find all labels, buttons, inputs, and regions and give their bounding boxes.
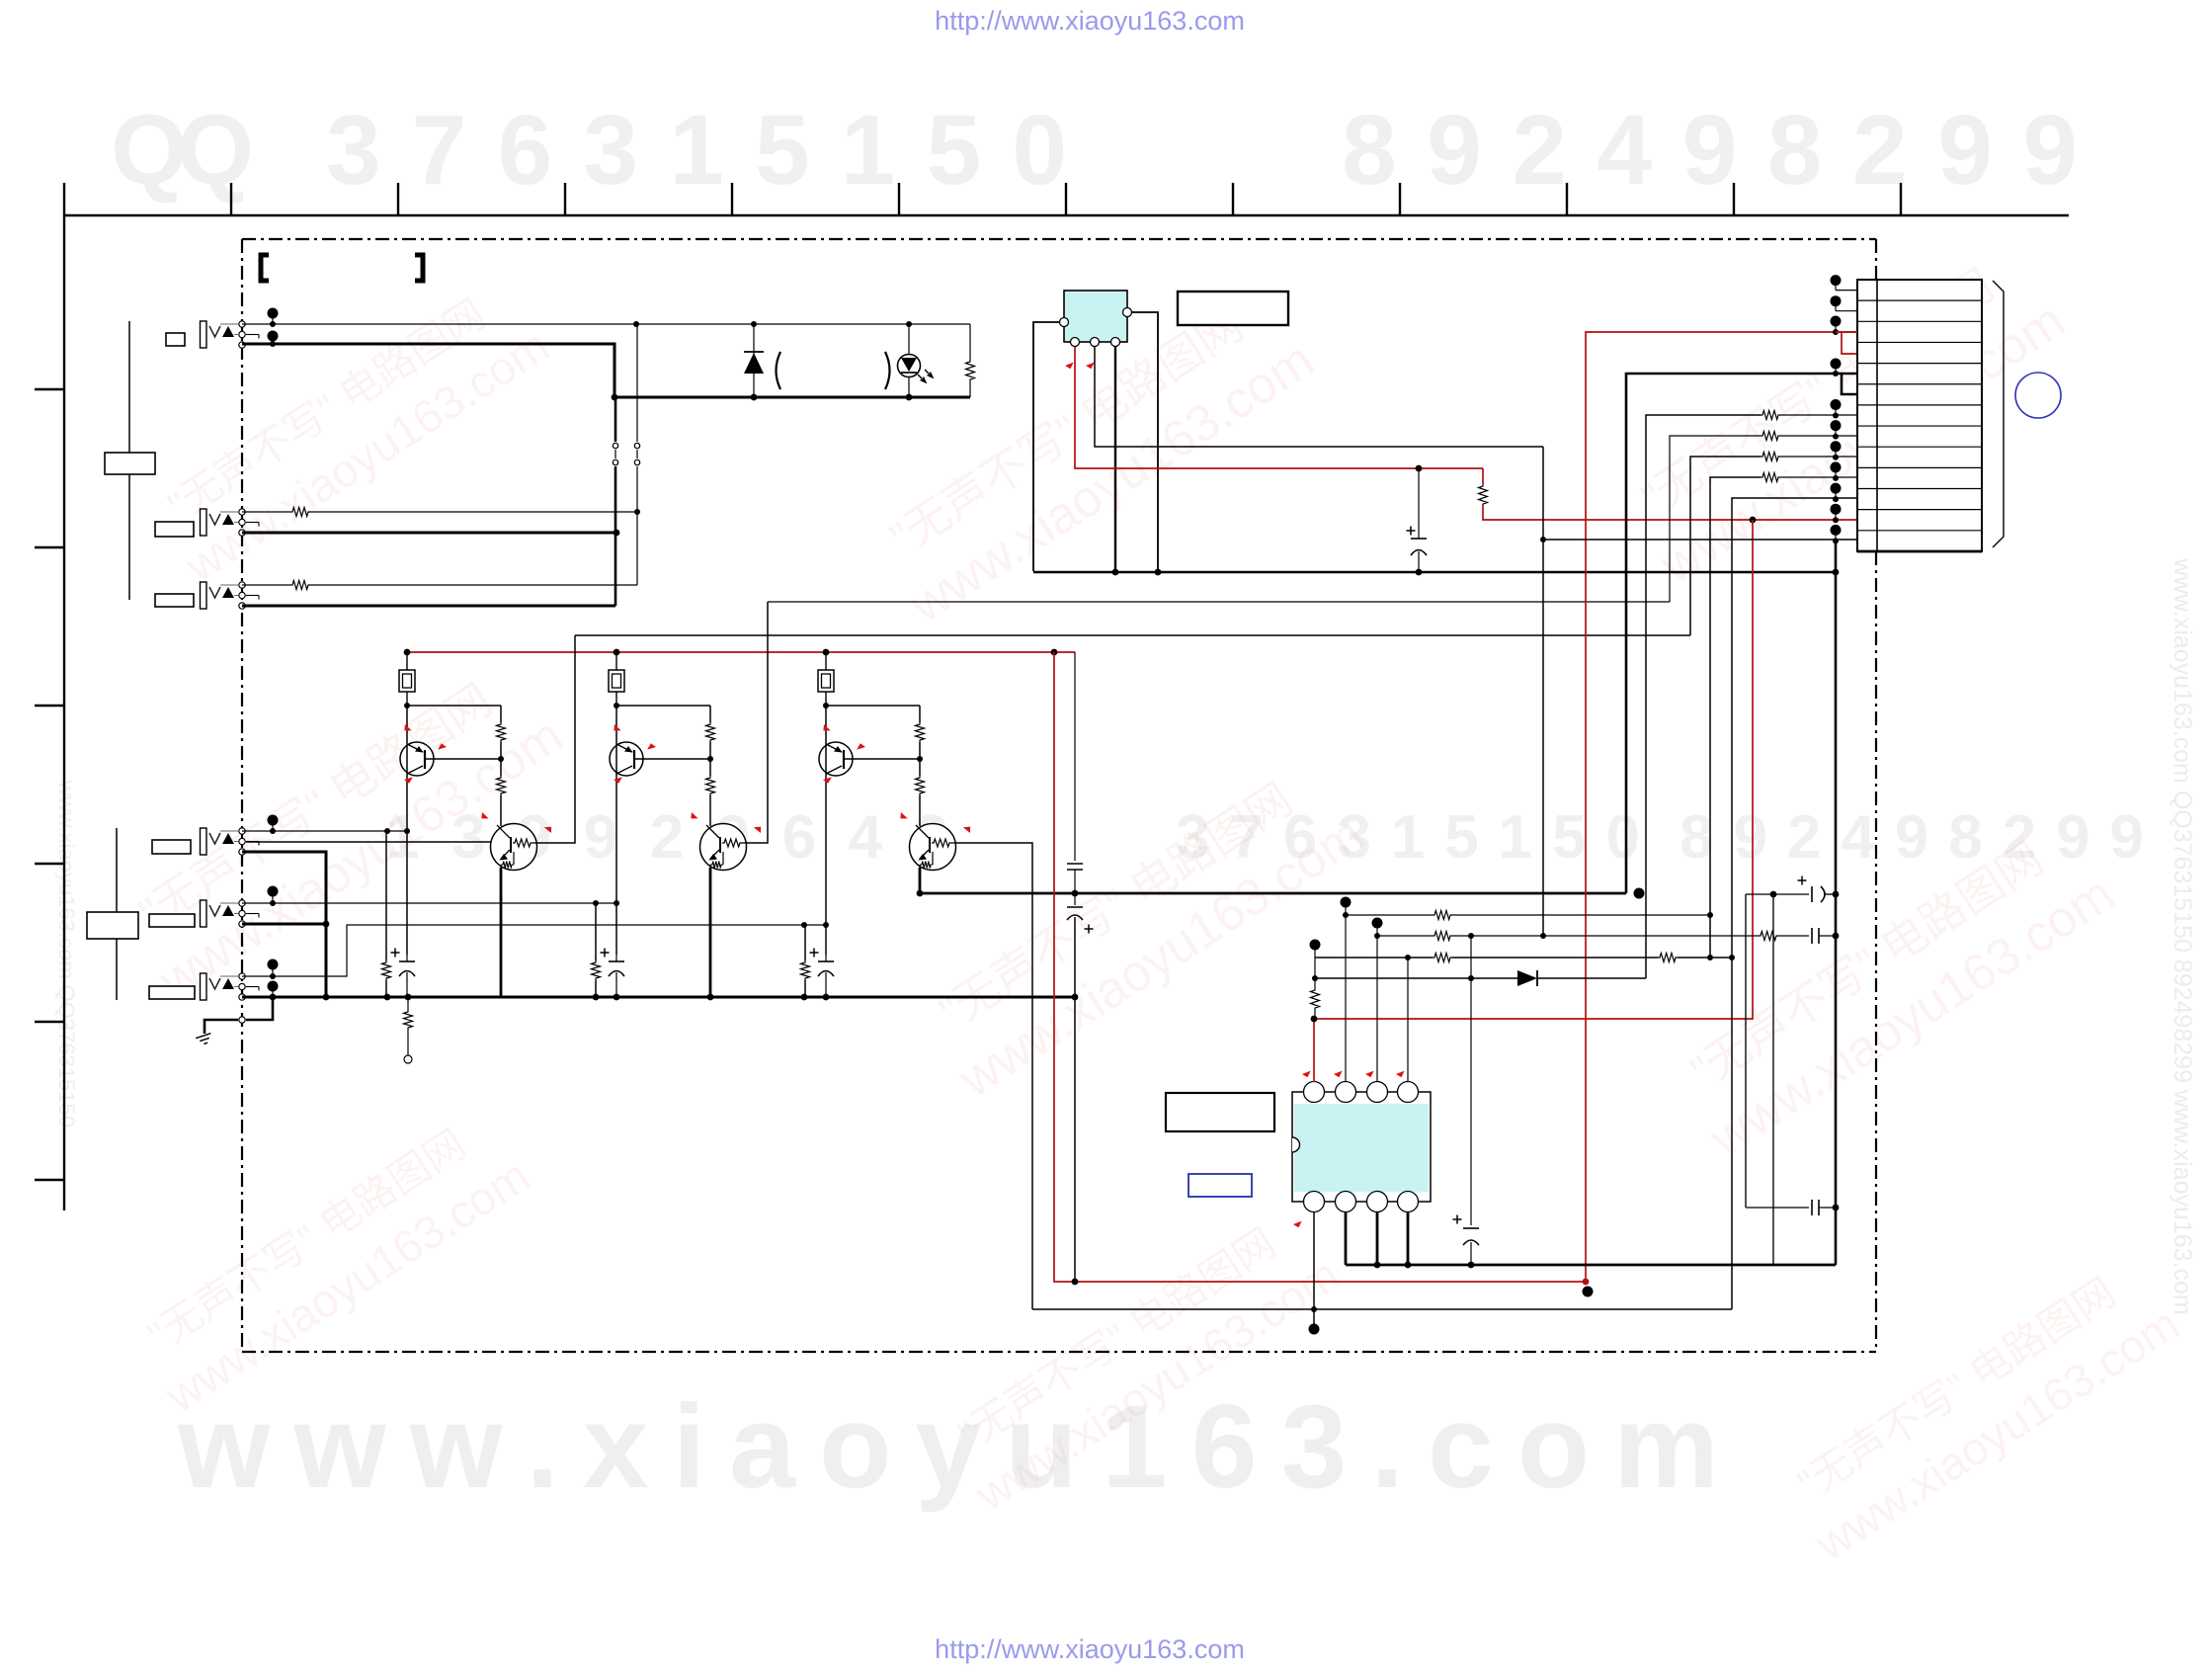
thick ground line y=579 xyxy=(1033,571,1836,574)
svg-text:8 9 2 4 9 8 2 9 9: 8 9 2 4 9 8 2 9 9 xyxy=(1342,95,2078,206)
stage A: filter resistor xyxy=(385,831,387,960)
IC2 pins top xyxy=(1304,1082,1325,1103)
IC601 pin3 wire down x=1129 xyxy=(1114,347,1116,571)
red corner marker dots xyxy=(1583,1279,1590,1286)
stage A: collector to cap xyxy=(406,831,408,955)
svg-text:http://www.xiaoyu163.com: http://www.xiaoyu163.com xyxy=(935,6,1245,36)
wire J1 sleeve thick xyxy=(242,532,616,535)
cap on line y=1222 xyxy=(1746,1207,1809,1209)
jack group 1 label box xyxy=(105,453,155,474)
svg-text:8 9 2 4 9 8 2 9 9: 8 9 2 4 9 8 2 9 9 xyxy=(1679,803,2144,872)
junction dots near J5 xyxy=(268,960,279,970)
stage C: filter resistor xyxy=(804,925,806,960)
stage A: transistor Q2 (digital) xyxy=(491,824,537,871)
riser x=1731 (p10) xyxy=(1710,477,1761,958)
IC2 body xyxy=(1292,1092,1431,1202)
wire J3 sleeve thick down x=330 xyxy=(242,852,326,997)
svg-text:Q Q: Q Q xyxy=(111,95,254,206)
signal line B y=609 xyxy=(768,601,1670,603)
stage B: transistor Q2 (digital) xyxy=(700,824,747,871)
red branch to p4 xyxy=(1842,332,1857,354)
stage C: bias resistor chain xyxy=(826,705,920,707)
IC601 top-right pin wire down x=1172 xyxy=(1132,312,1158,571)
svg-text:3 7 6 3 1 5 1 5 0: 3 7 6 3 1 5 1 5 0 xyxy=(326,95,1067,206)
decoupling cap at x=1436 xyxy=(1418,468,1420,539)
stage B emitter thick xyxy=(709,868,712,997)
junction dots near J3 xyxy=(268,815,279,826)
cap on row 947 xyxy=(1811,928,1813,944)
jack J1 xyxy=(201,509,207,536)
diode row y=990 xyxy=(1315,977,1517,979)
wire J4 sleeve thick xyxy=(242,923,326,926)
jack group 2 label box xyxy=(87,912,138,939)
red supply from bus to connector p3/p4 xyxy=(1054,332,1857,1282)
stage A emitter thick xyxy=(500,868,503,997)
stage A: transistor Q1 (PNP) xyxy=(400,742,434,776)
frame: top tick marks xyxy=(63,183,65,215)
stage C: transistor Q1 (PNP) xyxy=(819,742,853,776)
switch contact vertical x=623 xyxy=(614,397,617,442)
connector internal divider xyxy=(1876,280,1878,551)
stage C: filter cap xyxy=(825,955,827,961)
frame: top border line xyxy=(64,214,2069,216)
IC2 red arrows xyxy=(1302,1069,1313,1079)
wire J5 tip jog to stage C xyxy=(242,925,826,976)
wire J2 tip with resistor xyxy=(242,584,290,586)
connector pin 3 (red) xyxy=(1831,316,1842,327)
wire J4 tip y=914 to stage B xyxy=(242,902,616,904)
IC2 notch xyxy=(1292,1137,1300,1152)
riser x=1711 (p9 from stage A) xyxy=(1690,457,1761,635)
diode D (between y=328 and y=402) xyxy=(753,324,755,397)
thick bus y=1280 xyxy=(1346,1264,1836,1267)
IC601 label box xyxy=(1178,292,1288,325)
IC2 label box xyxy=(1166,1093,1274,1131)
stage A output riser xyxy=(536,635,575,843)
vertical x=1767 xyxy=(1745,894,1747,1208)
resistor to test point below bus xyxy=(407,997,409,1010)
stage C: ferrite bead xyxy=(825,652,827,670)
junction dots near J0 xyxy=(268,308,279,319)
IC601 body (cyan) xyxy=(1064,291,1127,342)
connector vertical thick x=1858 xyxy=(1835,540,1838,1265)
electrolytic cap on line y=905 xyxy=(1746,893,1809,895)
wire J3 tip y=841 to stage A xyxy=(242,830,407,832)
board title brackets xyxy=(261,255,269,281)
ground bus thick y=1009 xyxy=(242,996,1075,999)
switch contact vertical x=645 xyxy=(636,324,638,442)
stage B: bias resistor chain xyxy=(616,705,710,707)
jack group 2 bracket line xyxy=(116,828,118,1000)
row y=947 to IC2 pin3 xyxy=(1372,918,1383,929)
connector circled mark xyxy=(2015,373,2061,418)
resistor R (J0 line end) xyxy=(969,324,971,360)
signal line A y=643 xyxy=(575,634,1690,636)
frame: left tick marks xyxy=(35,388,64,390)
vertical x=1489 with cap to thick bus xyxy=(1470,936,1472,1225)
stage B output riser xyxy=(746,602,768,843)
junction dots near J4 xyxy=(268,886,279,897)
svg-text:www.xiaoyu163.com QQ376315150: www.xiaoyu163.com QQ376315150 892498299 … xyxy=(2169,557,2196,1315)
wire J0 tip line y=328 xyxy=(242,323,970,325)
connector pin 2 xyxy=(1831,295,1842,306)
relay parenthesis marks xyxy=(777,352,781,389)
LED indicator xyxy=(908,324,910,397)
stage C emitter thick to y=904 xyxy=(920,868,1626,893)
jack J3 xyxy=(201,828,207,855)
stage B: filter resistor xyxy=(595,903,597,960)
vertical x=1795 down to thick bus xyxy=(1772,894,1774,1265)
jack J4 xyxy=(201,900,207,927)
wire J3 ring to Q2A base xyxy=(246,841,511,843)
IC2 blue ref box xyxy=(1188,1174,1252,1197)
thick branch to p6 xyxy=(1842,374,1857,394)
riser x=1752 (p11 from stage C line) xyxy=(1732,498,1857,1309)
wire J1 tip with resistor xyxy=(242,511,290,513)
svg-text:www.xiaoyu163.com QQ376315150: www.xiaoyu163.com QQ376315150 xyxy=(54,780,79,1127)
red supply bus y=660 xyxy=(407,651,1075,653)
IC601 pins xyxy=(1060,318,1069,327)
connector CN body xyxy=(1857,280,1982,551)
J5 sleeve terminal and ground xyxy=(239,1017,245,1023)
svg-text:w w w . x i a o y u 1 6 3 . c: w w w . x i a o y u 1 6 3 . c o m xyxy=(177,1380,1719,1513)
connector pins 7-13 dots xyxy=(1831,399,1842,410)
stage B: ferrite bead xyxy=(615,652,617,670)
connector row dividers xyxy=(1857,299,1982,301)
IC601 pin2 wire y=452 xyxy=(1095,347,1543,447)
riser x=1690 (p8 from stage B) xyxy=(1670,436,1761,602)
stage A: bias resistor chain xyxy=(407,705,501,707)
stage C output drop xyxy=(955,843,1032,1309)
line y=1325 from stage C to riser x=1753 xyxy=(1032,1308,1732,1310)
stage A: ferrite bead xyxy=(406,652,408,670)
IC2 pins bottom xyxy=(1304,1192,1325,1212)
ground symbol xyxy=(196,1034,213,1046)
stage B: filter cap xyxy=(615,955,617,961)
black drop from red bus to caps x=1088 xyxy=(1074,652,1076,861)
wire J2 sleeve thick xyxy=(242,605,615,608)
row y=969 to IC2 pin4 xyxy=(1310,940,1321,951)
jack group 1 bracket line xyxy=(128,321,130,600)
jack J2 xyxy=(201,582,207,609)
bias resistor x=1331 into red line xyxy=(1311,988,1320,1010)
svg-text:http://www.xiaoyu163.com: http://www.xiaoyu163.com xyxy=(935,1634,1245,1664)
IC601 left pin wire down x=1046 xyxy=(1033,322,1059,571)
thick net riser x=1646 (pins5/6) xyxy=(1626,374,1857,893)
connector mating bracket xyxy=(1993,281,2004,547)
stage C: collector to cap xyxy=(825,925,827,955)
IC2 bottom pins 6-8 thick to bus xyxy=(1345,1212,1348,1265)
stage A: filter cap xyxy=(406,955,408,961)
frame: left border line xyxy=(63,215,65,1210)
row y=926 to IC2 pin2 xyxy=(1341,897,1352,908)
wire J0 sleeve thick xyxy=(242,344,970,397)
module boundary dash-dot box xyxy=(242,238,1876,240)
riser x=1669 (p7 from diode row) xyxy=(1646,415,1761,978)
IC2 bottom pin5 wire xyxy=(1313,1212,1315,1329)
riser x=1562 (p13) xyxy=(1542,447,1544,936)
stage B: transistor Q1 (PNP) xyxy=(610,742,643,776)
jack J5 xyxy=(201,973,207,1000)
red net pin1 of IC2 xyxy=(1314,520,1753,1082)
connector pin 1 xyxy=(1831,275,1842,286)
watermark: pink diagonal stamps xyxy=(144,271,558,592)
red net: IC601 pin1 to connector p12 xyxy=(1075,347,1483,468)
connector pin 5 (thick) xyxy=(1831,359,1842,370)
stage C: transistor Q2 (digital) xyxy=(910,824,956,871)
stage B: collector to cap xyxy=(615,903,617,955)
jack J0 (top line-in jack) xyxy=(201,321,207,348)
